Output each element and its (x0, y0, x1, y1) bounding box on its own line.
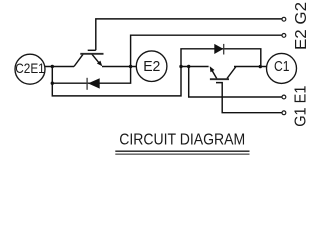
svg-text:C2E1: C2E1 (15, 60, 45, 76)
svg-text:CIRCUIT DIAGRAM: CIRCUIT DIAGRAM (119, 132, 245, 149)
svg-text:G1 E1: G1 E1 (293, 85, 310, 126)
svg-text:E2 G2: E2 G2 (293, 2, 310, 50)
svg-text:E2: E2 (143, 59, 160, 75)
svg-text:C1: C1 (274, 59, 290, 75)
